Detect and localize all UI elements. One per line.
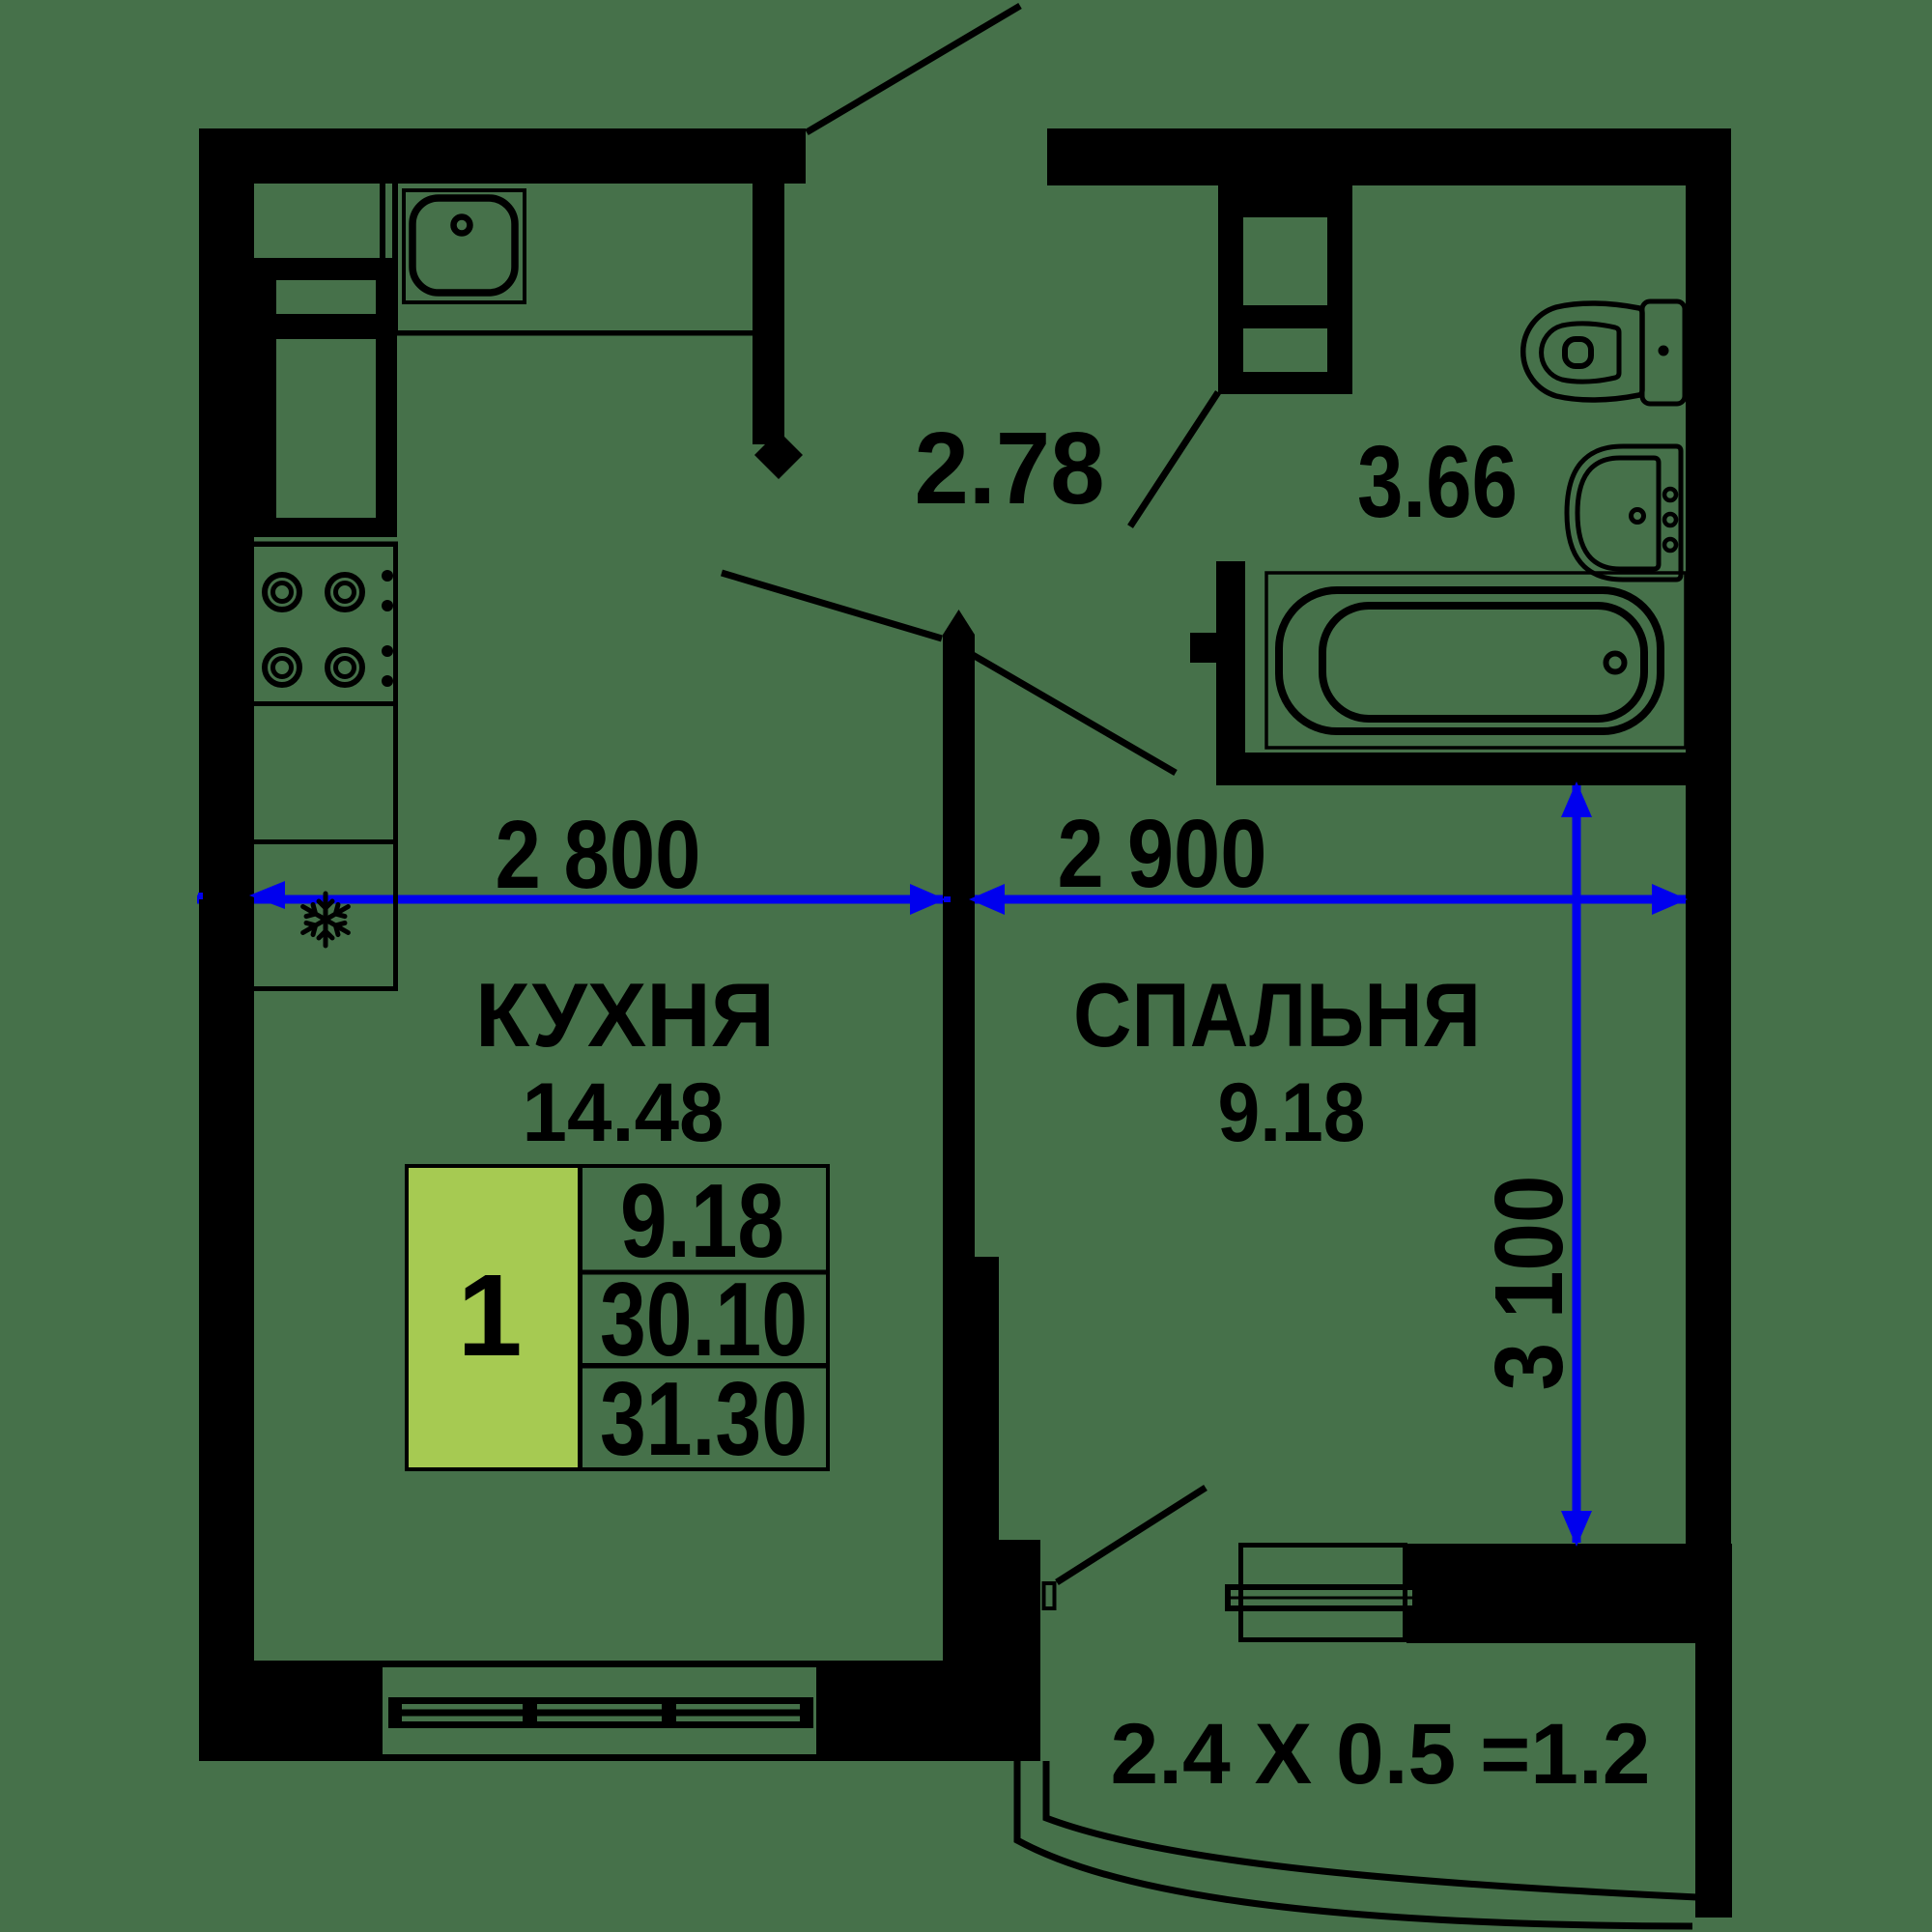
stove burner 4 <box>327 650 362 685</box>
leader kitchen door right <box>973 655 1176 773</box>
bathtub basin <box>1322 606 1644 719</box>
vent shaft block <box>1218 185 1352 394</box>
legend divider <box>578 1168 582 1467</box>
counter BC block <box>254 277 397 537</box>
washbasin outer <box>1567 446 1681 580</box>
balcony outer curve <box>1017 1761 1692 1926</box>
vent shaft window upper <box>1243 217 1327 305</box>
svg-text:3.66: 3.66 <box>1357 425 1518 539</box>
fridge snowflake <box>299 894 352 946</box>
svg-text:КУХНЯ: КУХНЯ <box>475 964 775 1065</box>
dimension 3100 line <box>1573 784 1581 1543</box>
balcony window frame <box>1241 1546 1406 1640</box>
counter boxB window <box>276 280 376 314</box>
leader entry <box>807 6 1020 132</box>
top wall bathroom <box>1047 128 1731 185</box>
svg-text:9.18: 9.18 <box>1218 1066 1366 1159</box>
kitchen sink outer <box>404 190 525 302</box>
partition wall upper with pointed tip <box>943 610 975 1257</box>
kitchen window top edge <box>383 1661 816 1667</box>
balcony parapet right <box>1695 1643 1732 1918</box>
dimension 2800 line <box>197 895 943 904</box>
bathtub outer <box>1266 573 1686 748</box>
legend row line 1 <box>582 1270 828 1275</box>
right wall <box>1686 128 1731 1643</box>
kitchen window mullions <box>388 1697 402 1728</box>
dimension 2900 right arrow <box>1652 884 1688 915</box>
balcony inner curve <box>1046 1761 1697 1897</box>
dimension line sliver in partition <box>944 896 951 902</box>
toilet seat <box>1542 324 1619 382</box>
washbasin dots <box>1664 489 1676 500</box>
stove burner 1 <box>265 575 299 610</box>
counter second line <box>392 184 398 335</box>
dimension 2800 right arrow <box>910 884 946 915</box>
kitchen sink basin <box>412 198 515 293</box>
dimension 3100 top arrow <box>1561 781 1592 817</box>
dimension 2900 line <box>975 895 1686 904</box>
svg-text:СПАЛЬНЯ: СПАЛЬНЯ <box>1073 964 1481 1065</box>
toilet tank <box>1642 301 1685 404</box>
counter middle box right line <box>393 706 398 844</box>
washbasin faucet dot <box>1632 510 1644 523</box>
top wall kitchen <box>199 128 806 184</box>
counter boxC window <box>276 339 376 518</box>
svg-text:14.48: 14.48 <box>523 1066 724 1159</box>
svg-text:1: 1 <box>457 1249 522 1380</box>
dimension 3100 bottom arrow <box>1561 1511 1592 1547</box>
vent shaft window lower <box>1243 328 1327 372</box>
bathroom left wall lower <box>1216 561 1245 785</box>
counter boxA bottom band <box>254 258 397 277</box>
svg-text:2.4 X 0.5 =1.2: 2.4 X 0.5 =1.2 <box>1111 1705 1651 1802</box>
balcony door jamb <box>1044 1583 1055 1608</box>
dimension 2800 left arrow <box>249 881 285 909</box>
legend green cell <box>409 1168 578 1467</box>
left wall <box>199 128 254 1761</box>
bathroom wall tab <box>1190 633 1216 663</box>
stove burner 2 <box>327 575 362 610</box>
svg-text:2.78: 2.78 <box>915 412 1105 526</box>
stove burner 3 <box>265 650 299 685</box>
kitchen sink faucet <box>454 217 470 234</box>
kitchen window glazing lines <box>388 1697 813 1704</box>
svg-text:2 800: 2 800 <box>496 801 701 909</box>
svg-text:31.30: 31.30 <box>600 1360 808 1478</box>
bedroom bottom wall <box>1406 1544 1732 1643</box>
leader shaft <box>1130 392 1218 526</box>
balcony window sill band <box>1225 1584 1418 1611</box>
counter boxA right line <box>380 184 385 258</box>
fridge box right line <box>393 844 398 991</box>
bathroom bottom wall <box>1216 753 1686 785</box>
kitchen window bottom edge <box>383 1754 816 1761</box>
partition wall bottom block <box>943 1540 1040 1761</box>
leader bedroom door <box>1057 1488 1206 1582</box>
stove knobs <box>382 570 393 582</box>
fridge box bottom line <box>254 986 398 991</box>
toilet bowl <box>1523 303 1642 400</box>
svg-text:3 100: 3 100 <box>1475 1176 1583 1391</box>
leader kitchen door left <box>722 573 942 639</box>
stove right line <box>393 547 398 706</box>
stove bottom line <box>254 701 398 706</box>
dimension 2800 outside tick <box>198 893 203 899</box>
kitchen bottom wall left <box>199 1661 383 1761</box>
kitchen bottom wall right <box>816 1661 943 1761</box>
counter middle box bottom line <box>254 839 398 844</box>
entry door stub diamond tip <box>754 431 803 479</box>
bathtub drain <box>1606 654 1625 672</box>
entry door stub <box>753 184 784 444</box>
bathtub rim <box>1279 590 1661 731</box>
partition wall middle <box>943 1257 999 1540</box>
legend outer box <box>407 1166 828 1469</box>
counter front line <box>396 330 753 336</box>
dimension 2900 left arrow <box>969 884 1005 915</box>
toilet hole <box>1565 339 1591 366</box>
svg-text:2 900: 2 900 <box>1058 800 1267 908</box>
legend row line 2 <box>582 1363 828 1369</box>
stove top line <box>254 542 398 548</box>
washbasin basin <box>1577 458 1659 569</box>
toilet tank button <box>1659 346 1669 356</box>
